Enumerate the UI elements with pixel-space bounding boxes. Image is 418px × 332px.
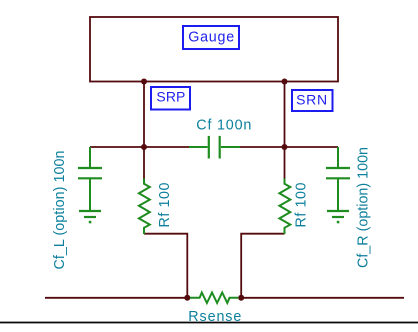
ground right bbox=[327, 211, 349, 223]
svg-text:Rf 100: Rf 100 bbox=[157, 182, 173, 227]
svg-text:SRN: SRN bbox=[296, 91, 327, 107]
junction at SRN gauge pin bbox=[282, 79, 288, 85]
label Gauge bbox=[183, 26, 239, 49]
wire Cf right to SRN node bbox=[240, 146, 285, 148]
capacitor Cf_R bbox=[326, 147, 350, 211]
junction at SRP gauge pin bbox=[141, 79, 147, 85]
resistor Rf right bbox=[279, 179, 290, 235]
gauge block bbox=[90, 17, 338, 82]
svg-text:Cf 100n: Cf 100n bbox=[196, 117, 251, 133]
svg-text:Cf_R (option) 100n: Cf_R (option) 100n bbox=[356, 147, 372, 268]
resistor Rsense bbox=[190, 293, 238, 304]
wire SRN node to Cf_R branch bbox=[285, 146, 339, 148]
capacitor Cf_L bbox=[78, 147, 102, 211]
wire SRP node down to Rf left bbox=[143, 147, 145, 179]
wire bottom rail left bbox=[45, 297, 187, 299]
wire bottom rail right bbox=[241, 297, 404, 299]
svg-text:SRP: SRP bbox=[156, 89, 185, 105]
svg-text:Rf 100: Rf 100 bbox=[293, 182, 309, 227]
net label SRP bbox=[151, 87, 190, 110]
junction node SRN bbox=[282, 144, 288, 150]
capacitor Cf bbox=[189, 136, 240, 159]
wire SRP node to Cf left bbox=[144, 146, 189, 148]
wire SRP vertical from gauge bbox=[143, 82, 145, 148]
wire Rf right bottom elbow bbox=[241, 234, 284, 298]
svg-text:Cf_L (option) 100n: Cf_L (option) 100n bbox=[52, 150, 68, 269]
svg-text:Gauge: Gauge bbox=[188, 29, 234, 45]
ground left bbox=[79, 211, 101, 223]
net label SRN bbox=[292, 90, 333, 111]
wire SRN node down to Rf right bbox=[284, 147, 286, 179]
junction bottom left bbox=[184, 295, 190, 301]
wire SRN vertical from gauge bbox=[284, 82, 286, 148]
resistor Rf left bbox=[139, 179, 150, 235]
wire Rf left bottom elbow bbox=[144, 234, 187, 298]
junction node SRP bbox=[141, 144, 147, 150]
wire Cf_L branch horizontal bbox=[90, 146, 144, 148]
junction bottom right bbox=[238, 295, 244, 301]
svg-text:Rsense: Rsense bbox=[188, 309, 241, 325]
